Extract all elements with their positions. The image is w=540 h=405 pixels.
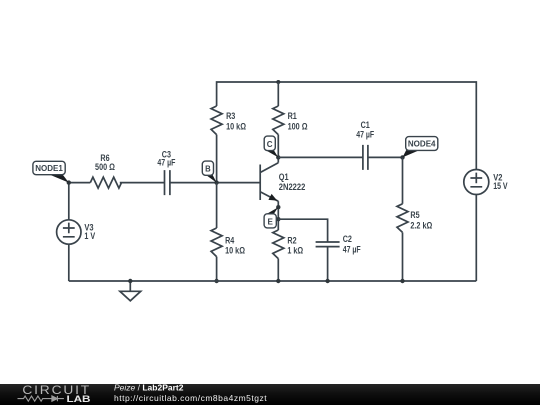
wire node C to C1 (278, 156, 363, 158)
svg-text:2.2 kΩ: 2.2 kΩ (410, 221, 432, 231)
svg-text:500 Ω: 500 Ω (95, 162, 115, 172)
junction dot NODE4 (400, 155, 404, 159)
junction dot R4 rail (214, 279, 218, 283)
wire bottom rail (69, 280, 477, 282)
resistor R6 (90, 177, 121, 188)
svg-text:47 µF: 47 µF (157, 157, 175, 167)
wire R6 to C3 (120, 182, 165, 184)
voltage source V2 (464, 170, 489, 195)
wire node B to Q1 base (217, 182, 261, 184)
wire R4 to bottom rail (216, 257, 218, 281)
svg-text:Q1: Q1 (279, 172, 289, 182)
svg-text:R2: R2 (287, 236, 296, 246)
svg-text:47 µF: 47 µF (343, 245, 361, 255)
wire top rail (217, 82, 477, 170)
transistor Q1 (260, 163, 278, 202)
svg-text:1 kΩ: 1 kΩ (287, 246, 303, 256)
junction dot node C (276, 155, 280, 159)
wire R1 top lead (277, 82, 279, 106)
wire Q1 collector to node C (277, 157, 279, 162)
capacitor C1 (363, 145, 368, 170)
svg-text:R5: R5 (410, 210, 419, 220)
svg-text:2N2222: 2N2222 (279, 182, 306, 192)
wire Q1 emitter down to R2 (277, 201, 279, 230)
svg-text:1 V: 1 V (84, 231, 95, 241)
wire NODE1 to R6 (69, 182, 91, 184)
resistor R5 (397, 204, 408, 233)
svg-text:B: B (205, 164, 211, 174)
junction dot emitter branch (276, 217, 280, 221)
junction dot R5 rail (400, 279, 404, 283)
wire emitter branch to C2 (278, 219, 327, 242)
junction dot R2 rail (276, 279, 280, 283)
wire NODE1 to V3 (68, 183, 70, 220)
wire C1 to NODE4 (368, 156, 403, 158)
wire R1 bottom to node C (277, 135, 279, 158)
CircuitLab logo resistor-diode glyph (18, 396, 64, 401)
svg-text:C1: C1 (361, 120, 370, 130)
svg-text:C2: C2 (343, 234, 352, 244)
wire node B to R4 (216, 183, 218, 228)
junction dot NODE1 (67, 180, 71, 184)
resistor R4 (211, 228, 222, 257)
svg-text:47 µF: 47 µF (356, 130, 374, 140)
svg-text:R1: R1 (288, 111, 297, 121)
junction dot C2 rail (325, 279, 329, 283)
svg-text:10 kΩ: 10 kΩ (225, 246, 245, 256)
svg-text:C: C (267, 139, 273, 149)
wire C3 to node B (170, 182, 217, 184)
junction dot node B (214, 180, 218, 184)
wire R2 to bottom rail (277, 259, 279, 281)
junction dot ground (128, 279, 132, 283)
resistor R3 (211, 106, 222, 135)
svg-text:R3: R3 (226, 111, 235, 121)
junction dot top rail above R1 (276, 80, 280, 84)
svg-text:15 V: 15 V (493, 181, 508, 191)
svg-text:NODE1: NODE1 (35, 163, 63, 173)
junction dot emitter E anchor (276, 205, 280, 209)
svg-text:Peize / Lab2Part2: Peize / Lab2Part2 (114, 383, 184, 393)
ground (120, 281, 141, 301)
wire NODE4 to R5 (402, 157, 404, 203)
wire V3 to bottom rail (68, 244, 70, 281)
capacitor C2 (316, 242, 340, 247)
svg-text:LAB: LAB (67, 394, 91, 405)
resistor R2 (273, 230, 284, 259)
svg-text:100 Ω: 100 Ω (288, 121, 308, 131)
wire R5 to bottom rail (402, 232, 404, 281)
node label C (264, 136, 278, 157)
svg-text:R4: R4 (225, 236, 235, 246)
node label NODE1 (33, 161, 69, 182)
capacitor C3 (165, 170, 170, 195)
node label E (264, 207, 278, 228)
svg-text:10 kΩ: 10 kΩ (226, 121, 246, 131)
voltage source V3 (57, 220, 81, 244)
svg-text:E: E (268, 216, 274, 226)
node label NODE4 (403, 137, 438, 158)
wire R3 bottom to node B (216, 135, 218, 183)
wire V2 to bottom rail (475, 195, 477, 282)
resistor R1 (273, 106, 284, 135)
svg-text:http://circuitlab.com/cm8ba4zm: http://circuitlab.com/cm8ba4zm5tgzt (114, 393, 267, 403)
wire C2 to bottom rail (327, 247, 329, 281)
node label B (202, 161, 216, 183)
svg-text:NODE4: NODE4 (408, 139, 436, 149)
